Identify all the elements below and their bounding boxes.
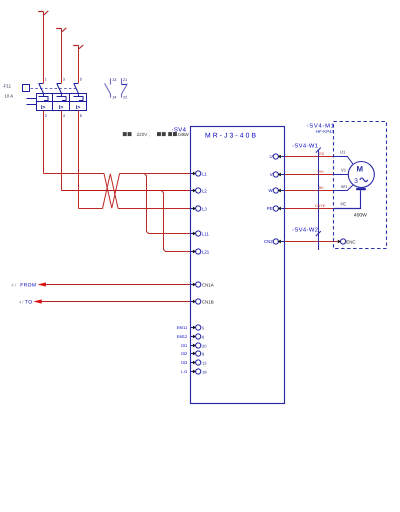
- svg-text:DI1: DI1: [181, 343, 188, 348]
- svg-text:V: V: [270, 172, 273, 177]
- svg-text:CN2: CN2: [264, 239, 273, 244]
- svg-text:2: 2: [45, 113, 47, 118]
- svg-text::0.4kW: :0.4kW: [177, 132, 189, 137]
- svg-text:3: 3: [354, 178, 358, 185]
- svg-text:13: 13: [112, 78, 116, 82]
- svg-text:LG: LG: [181, 369, 187, 374]
- svg-text:5: 5: [202, 325, 205, 330]
- svg-text:6: 6: [202, 334, 205, 339]
- svg-text:ENC: ENC: [346, 239, 355, 244]
- svg-text:14: 14: [112, 95, 116, 99]
- svg-text:WH: WH: [318, 170, 324, 174]
- svg-text:EM12: EM12: [177, 334, 188, 339]
- svg-text:TO: TO: [25, 300, 32, 306]
- svg-text:DI2: DI2: [181, 351, 188, 356]
- svg-text:RD: RD: [319, 152, 325, 156]
- svg-text:HF-KP43: HF-KP43: [316, 129, 335, 134]
- svg-text:L2: L2: [202, 188, 207, 193]
- svg-text:4 /: 4 /: [11, 282, 16, 287]
- svg-text:I>: I>: [41, 105, 46, 111]
- svg-text:DI3: DI3: [181, 360, 188, 365]
- svg-text:400W: 400W: [354, 212, 367, 218]
- svg-text:4 /: 4 /: [19, 299, 24, 304]
- svg-text:5: 5: [80, 77, 82, 82]
- svg-text:I>: I>: [59, 105, 64, 111]
- svg-text:22: 22: [123, 95, 127, 99]
- svg-text:-SV4-W2: -SV4-W2: [292, 227, 318, 234]
- svg-text:1: 1: [45, 77, 47, 82]
- svg-text:L11: L11: [202, 231, 209, 236]
- svg-text:U1: U1: [340, 149, 346, 154]
- svg-text:I>: I>: [76, 105, 81, 111]
- svg-text:GNYE: GNYE: [315, 204, 326, 208]
- svg-text:13: 13: [202, 360, 207, 365]
- svg-text:BK: BK: [319, 186, 324, 190]
- svg-text:V1: V1: [341, 168, 347, 173]
- svg-text:FROM: FROM: [20, 282, 36, 288]
- svg-text:CN1A: CN1A: [202, 282, 214, 287]
- svg-text:-F11: -F11: [3, 84, 12, 89]
- svg-text:19: 19: [202, 369, 207, 374]
- svg-text:CN1B: CN1B: [202, 299, 214, 304]
- svg-text:MR-J3-40B: MR-J3-40B: [205, 133, 256, 140]
- svg-text:21: 21: [123, 78, 127, 82]
- svg-text:PE: PE: [341, 202, 347, 207]
- svg-text:EM11: EM11: [177, 325, 188, 330]
- svg-text:8: 8: [202, 351, 205, 356]
- svg-text:W1: W1: [341, 184, 348, 189]
- svg-text:L21: L21: [202, 249, 210, 254]
- svg-text:220V ,: 220V ,: [137, 132, 150, 137]
- svg-text:10 A: 10 A: [5, 93, 14, 98]
- svg-text:PE: PE: [267, 206, 273, 211]
- svg-text:4: 4: [63, 113, 66, 118]
- svg-text:20: 20: [202, 343, 207, 348]
- svg-text:-SV4-W1: -SV4-W1: [292, 143, 318, 150]
- svg-text:L1: L1: [202, 171, 207, 176]
- svg-text:3: 3: [63, 77, 65, 82]
- svg-text:6: 6: [80, 113, 82, 118]
- svg-text:L3: L3: [202, 206, 207, 211]
- svg-text:M: M: [357, 164, 364, 173]
- svg-text:U: U: [269, 154, 272, 159]
